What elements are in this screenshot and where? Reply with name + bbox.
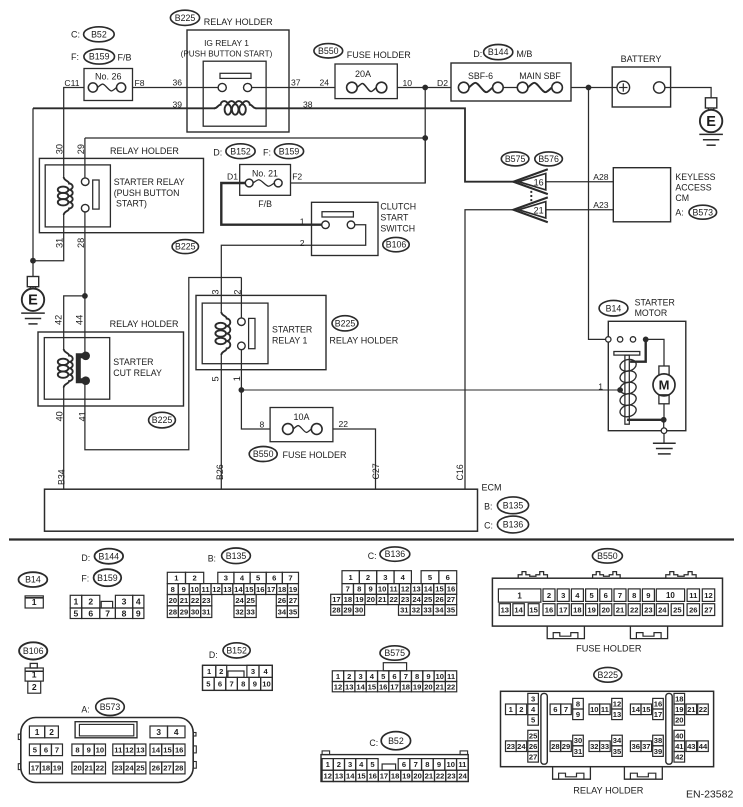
svg-text:22: 22 xyxy=(699,705,707,714)
relay holder slot left xyxy=(541,693,547,764)
svg-text:STARTER: STARTER xyxy=(635,297,675,307)
oval B106 (connector view) xyxy=(19,642,47,659)
svg-text:16: 16 xyxy=(545,605,553,614)
svg-text:25: 25 xyxy=(673,605,682,614)
wire 2 pin into relay 1 contact xyxy=(240,278,242,319)
ground E (battery) xyxy=(705,98,716,108)
starter cut relay coil xyxy=(64,349,73,388)
junction at 10/D2 xyxy=(422,85,428,91)
junction 29/F2 column xyxy=(422,135,428,141)
svg-text:B:: B: xyxy=(208,554,216,564)
svg-text:31: 31 xyxy=(400,606,409,615)
svg-text:24: 24 xyxy=(517,742,526,751)
svg-text:FUSE HOLDER: FUSE HOLDER xyxy=(283,450,348,460)
svg-text:8: 8 xyxy=(576,699,580,708)
wire 40: cut relay coil to ECM B34 xyxy=(63,399,65,489)
oval B550 (fuse holder 10A) xyxy=(249,447,277,462)
connector B52 24-pin xyxy=(321,755,468,782)
svg-text:2: 2 xyxy=(547,591,551,600)
svg-text:KEYLESS: KEYLESS xyxy=(675,172,715,182)
svg-text:12: 12 xyxy=(704,591,712,600)
svg-text:12: 12 xyxy=(323,772,331,781)
svg-text:FUSE HOLDER: FUSE HOLDER xyxy=(576,644,642,654)
fuse 10A (fuse holder B550) xyxy=(270,408,333,442)
svg-text:D:: D: xyxy=(81,553,90,563)
svg-text:(PUSH BUTTON: (PUSH BUTTON xyxy=(114,188,180,198)
svg-text:CM: CM xyxy=(675,193,689,203)
svg-text:EN-23582: EN-23582 xyxy=(686,789,733,801)
svg-text:9: 9 xyxy=(87,746,91,755)
svg-text:7: 7 xyxy=(404,672,408,681)
svg-text:20: 20 xyxy=(73,764,81,773)
wire 44 down to cut relay contact xyxy=(84,296,86,353)
svg-text:16: 16 xyxy=(654,699,662,708)
svg-text:19: 19 xyxy=(53,764,61,773)
svg-text:3: 3 xyxy=(156,727,161,737)
svg-text:6: 6 xyxy=(88,608,93,618)
svg-text:28: 28 xyxy=(175,764,183,773)
oval B225 (cut relay holder) xyxy=(149,412,176,428)
svg-text:5: 5 xyxy=(210,376,220,381)
svg-text:CLUTCH: CLUTCH xyxy=(380,201,416,211)
wire 1: relay1 contact down xyxy=(240,350,242,391)
svg-text:B106: B106 xyxy=(23,646,44,656)
svg-text:35: 35 xyxy=(289,607,298,616)
svg-text:B135: B135 xyxy=(503,500,524,510)
wire 42 branch xyxy=(64,296,85,350)
svg-text:12: 12 xyxy=(613,699,621,708)
svg-text:D2: D2 xyxy=(437,78,448,88)
connector B575 22-pin xyxy=(383,663,406,671)
svg-text:B159: B159 xyxy=(97,573,118,583)
svg-text:B225: B225 xyxy=(152,415,173,425)
svg-text:8: 8 xyxy=(171,585,175,594)
svg-text:A23: A23 xyxy=(593,200,609,210)
connector arrow 16 xyxy=(513,169,547,194)
svg-text:13: 13 xyxy=(136,746,144,755)
junction motor ground xyxy=(661,417,667,423)
wire to ground E xyxy=(32,261,34,277)
svg-text:36: 36 xyxy=(631,742,639,751)
wire solenoid bottom to motor bottom (thick) xyxy=(627,419,664,421)
wire 21: arrow to ECM C16 xyxy=(465,210,516,489)
svg-text:17: 17 xyxy=(380,772,388,781)
svg-text:14: 14 xyxy=(356,682,365,691)
svg-text:23: 23 xyxy=(202,596,210,605)
wire C11 from fuse No.26 down column 30 xyxy=(64,88,84,179)
junction at ground E column xyxy=(30,258,36,264)
svg-text:7: 7 xyxy=(229,680,233,689)
svg-text:6: 6 xyxy=(272,574,276,583)
svg-text:2: 2 xyxy=(88,597,93,607)
svg-text:3: 3 xyxy=(531,694,535,703)
svg-text:ACCESS: ACCESS xyxy=(675,183,711,193)
svg-text:C:: C: xyxy=(484,521,493,531)
svg-text:3: 3 xyxy=(211,289,221,294)
relay holder slot right xyxy=(666,693,672,764)
svg-text:14: 14 xyxy=(346,772,355,781)
svg-text:6: 6 xyxy=(553,705,557,714)
svg-text:3: 3 xyxy=(561,591,565,600)
connector arrow 21 xyxy=(513,197,547,222)
connector B152 10-pin xyxy=(203,665,273,690)
svg-text:20: 20 xyxy=(675,716,683,725)
svg-text:F8: F8 xyxy=(135,78,145,88)
svg-text:24: 24 xyxy=(658,605,667,614)
svg-text:13: 13 xyxy=(412,585,420,594)
svg-text:RELAY HOLDER: RELAY HOLDER xyxy=(110,146,179,156)
oval B225 (starter relay holder) xyxy=(172,240,198,254)
svg-text:14: 14 xyxy=(152,746,161,755)
svg-text:41: 41 xyxy=(675,742,684,751)
svg-text:3: 3 xyxy=(348,760,352,769)
svg-text:8: 8 xyxy=(632,591,636,600)
svg-text:21: 21 xyxy=(180,596,189,605)
svg-text:17: 17 xyxy=(31,764,39,773)
svg-text:B550: B550 xyxy=(597,551,618,561)
svg-text:RELAY HOLDER: RELAY HOLDER xyxy=(110,319,179,329)
svg-text:19: 19 xyxy=(413,682,421,691)
svg-text:8: 8 xyxy=(415,672,419,681)
svg-text:12: 12 xyxy=(401,585,409,594)
oval B225 (IG relay holder) xyxy=(170,10,199,25)
svg-text:21: 21 xyxy=(436,682,445,691)
svg-text:F:: F: xyxy=(71,52,79,62)
starter cut relay inner box xyxy=(44,338,109,400)
svg-text:FUSE HOLDER: FUSE HOLDER xyxy=(347,50,412,60)
wire 22: fuse 10A to ECM C27 xyxy=(333,429,376,489)
svg-text:29: 29 xyxy=(180,607,188,616)
starter relay (push button start) inner box xyxy=(45,165,110,227)
relay holder mounting tabs xyxy=(553,767,591,780)
svg-text:23: 23 xyxy=(447,772,455,781)
connector B14 xyxy=(25,596,43,608)
starter relay 1 inner box xyxy=(202,303,268,364)
svg-text:10: 10 xyxy=(590,705,598,714)
section divider xyxy=(9,538,734,540)
svg-text:10: 10 xyxy=(436,672,444,681)
svg-text:D1: D1 xyxy=(227,172,238,182)
IG relay 1 coil xyxy=(214,101,256,108)
svg-text:RELAY 1: RELAY 1 xyxy=(272,336,307,346)
svg-text:F:: F: xyxy=(263,148,271,158)
svg-text:40: 40 xyxy=(675,731,683,740)
wire 29: row to starter relay xyxy=(85,137,425,139)
svg-text:F2: F2 xyxy=(292,172,302,182)
svg-text:26: 26 xyxy=(435,595,443,604)
clutch start switch contact xyxy=(322,212,353,217)
svg-text:9: 9 xyxy=(369,585,373,594)
svg-text:15: 15 xyxy=(357,772,366,781)
svg-text:9: 9 xyxy=(182,585,186,594)
svg-text:23: 23 xyxy=(507,742,515,751)
svg-text:35: 35 xyxy=(447,606,456,615)
solenoid coil xyxy=(619,358,638,373)
oval B225 (relay holder 1) xyxy=(332,316,358,331)
svg-text:5: 5 xyxy=(74,608,79,618)
svg-text:C11: C11 xyxy=(64,78,79,88)
svg-text:39: 39 xyxy=(173,100,183,110)
keyless access CM box xyxy=(613,168,670,222)
svg-text:B576: B576 xyxy=(538,154,559,164)
svg-text:7: 7 xyxy=(618,591,622,600)
svg-text:24: 24 xyxy=(125,764,134,773)
svg-text:29: 29 xyxy=(76,144,86,154)
svg-text:C:: C: xyxy=(369,738,378,748)
svg-text:B225: B225 xyxy=(175,242,196,252)
svg-text:42: 42 xyxy=(54,315,64,325)
svg-text:37: 37 xyxy=(291,78,301,88)
svg-text:22: 22 xyxy=(389,595,397,604)
svg-text:23: 23 xyxy=(114,764,122,773)
svg-text:B575: B575 xyxy=(505,154,526,164)
svg-text:12: 12 xyxy=(212,585,220,594)
junction relay1 pin1 xyxy=(239,387,245,393)
svg-text:15: 15 xyxy=(529,605,538,614)
svg-text:14: 14 xyxy=(631,705,640,714)
wire 37: IG relay to 20A fuse xyxy=(251,87,335,89)
svg-text:21: 21 xyxy=(687,705,696,714)
svg-text:28: 28 xyxy=(169,607,177,616)
connector B573 28-pin body xyxy=(21,718,193,783)
svg-text:13: 13 xyxy=(501,605,509,614)
oval B550 (connector view) xyxy=(592,549,622,563)
relay holder box (starter cut relay) xyxy=(38,332,184,406)
svg-text:17: 17 xyxy=(559,605,567,614)
svg-text:6: 6 xyxy=(402,760,406,769)
starter motor terminals xyxy=(606,337,611,342)
svg-text:6: 6 xyxy=(44,746,48,755)
svg-text:15: 15 xyxy=(368,682,377,691)
svg-text:7: 7 xyxy=(414,760,418,769)
fuse MAIN SBF xyxy=(517,82,528,93)
svg-text:24: 24 xyxy=(458,772,467,781)
fuse holder mounting tabs xyxy=(547,626,584,639)
svg-text:27: 27 xyxy=(529,753,537,762)
svg-text:SWITCH: SWITCH xyxy=(380,223,415,233)
svg-text:12: 12 xyxy=(125,746,133,755)
svg-text:20: 20 xyxy=(413,772,421,781)
svg-text:B52: B52 xyxy=(91,29,107,39)
svg-text:17: 17 xyxy=(267,585,275,594)
svg-text:10: 10 xyxy=(403,78,413,88)
wire F2 to junction column xyxy=(291,138,426,183)
connector B135 35-pin xyxy=(167,572,185,583)
svg-text:26: 26 xyxy=(529,742,537,751)
svg-text:10: 10 xyxy=(446,760,454,769)
svg-text:35: 35 xyxy=(613,747,622,756)
svg-text:B159: B159 xyxy=(89,52,110,62)
svg-text:26: 26 xyxy=(278,596,286,605)
svg-text:B152: B152 xyxy=(230,146,251,156)
svg-text:14: 14 xyxy=(424,585,433,594)
svg-text:13: 13 xyxy=(335,772,343,781)
svg-text:RELAY HOLDER: RELAY HOLDER xyxy=(329,336,398,346)
svg-text:CUT RELAY: CUT RELAY xyxy=(113,368,162,378)
svg-text:3: 3 xyxy=(358,672,362,681)
svg-text:27: 27 xyxy=(289,596,297,605)
svg-text:20: 20 xyxy=(169,596,177,605)
svg-text:BATTERY: BATTERY xyxy=(621,54,662,64)
svg-text:RELAY HOLDER: RELAY HOLDER xyxy=(573,786,643,796)
junction 28/42/44 xyxy=(82,293,88,299)
svg-text:30: 30 xyxy=(574,736,582,745)
svg-text:3: 3 xyxy=(383,573,387,582)
oval B575 (connector view) xyxy=(380,646,409,660)
svg-text:B14: B14 xyxy=(25,575,41,585)
svg-text:1: 1 xyxy=(35,727,40,737)
svg-text:9: 9 xyxy=(437,760,441,769)
svg-text:2: 2 xyxy=(300,238,305,248)
svg-text:B26: B26 xyxy=(215,464,225,480)
svg-text:26: 26 xyxy=(152,764,160,773)
svg-text:6: 6 xyxy=(446,573,450,582)
svg-text:9: 9 xyxy=(253,680,257,689)
connector B106 2-pin xyxy=(30,663,37,668)
connector B225 relay holder body xyxy=(501,691,714,766)
svg-text:21: 21 xyxy=(616,605,625,614)
svg-text:B14: B14 xyxy=(606,303,622,313)
svg-text:STARTER RELAY: STARTER RELAY xyxy=(114,177,185,187)
svg-text:F/B: F/B xyxy=(258,199,272,209)
svg-text:22: 22 xyxy=(96,764,104,773)
wire 29 down to starter relay contact xyxy=(84,138,86,178)
svg-text:26: 26 xyxy=(689,605,697,614)
fuse No. 26 (F/B) xyxy=(84,69,133,101)
svg-text:16: 16 xyxy=(256,585,264,594)
svg-text:32: 32 xyxy=(590,742,598,751)
svg-text:22: 22 xyxy=(630,605,638,614)
svg-text:13: 13 xyxy=(223,585,231,594)
svg-text:B159: B159 xyxy=(279,146,300,156)
svg-text:B136: B136 xyxy=(385,549,406,559)
svg-text:SBF-6: SBF-6 xyxy=(468,71,493,81)
svg-text:IG RELAY 1: IG RELAY 1 xyxy=(204,38,249,48)
svg-text:2: 2 xyxy=(219,667,223,676)
wire 28: starter relay contact down xyxy=(84,212,86,296)
wire motor to ground xyxy=(663,404,665,420)
svg-text:RELAY HOLDER: RELAY HOLDER xyxy=(204,17,273,27)
svg-text:B135: B135 xyxy=(226,551,247,561)
svg-text:20: 20 xyxy=(424,682,432,691)
svg-text:6: 6 xyxy=(218,680,222,689)
svg-text:18: 18 xyxy=(675,694,683,703)
svg-text:30: 30 xyxy=(54,144,64,154)
svg-text:1: 1 xyxy=(598,381,603,391)
svg-text:22: 22 xyxy=(191,596,199,605)
svg-text:25: 25 xyxy=(246,596,255,605)
svg-text:B144: B144 xyxy=(99,551,120,561)
svg-text:28: 28 xyxy=(332,606,340,615)
oval B136 (ECM) xyxy=(497,516,528,533)
svg-text:D:: D: xyxy=(213,148,222,158)
svg-text:13: 13 xyxy=(613,710,621,719)
svg-text:34: 34 xyxy=(278,607,287,616)
junction starter motor B terminal xyxy=(643,337,649,343)
svg-text:B575: B575 xyxy=(384,648,405,658)
svg-text:MAIN SBF: MAIN SBF xyxy=(519,71,561,81)
fuse SBF-6 xyxy=(458,82,469,93)
svg-text:17: 17 xyxy=(332,595,340,604)
ECM box xyxy=(45,489,478,531)
svg-text:24: 24 xyxy=(412,595,421,604)
svg-text:19: 19 xyxy=(402,772,410,781)
starter motor ground terminal xyxy=(661,428,667,434)
svg-text:28: 28 xyxy=(551,742,559,751)
svg-text:1: 1 xyxy=(232,376,242,381)
svg-text:22: 22 xyxy=(436,772,444,781)
SBF holder box (main fuse box) xyxy=(451,63,571,101)
svg-text:10A: 10A xyxy=(293,412,309,422)
svg-text:2: 2 xyxy=(519,705,523,714)
svg-text:9: 9 xyxy=(426,672,430,681)
wire pin1 to fuse 10A xyxy=(241,390,270,429)
wire junction column: D2 down to No.21 F2 xyxy=(424,88,426,184)
svg-text:D:: D: xyxy=(209,650,218,660)
svg-text:7: 7 xyxy=(105,608,110,618)
svg-text:9: 9 xyxy=(576,710,580,719)
ground E (starter relay) xyxy=(27,277,38,287)
svg-text:6: 6 xyxy=(392,672,396,681)
svg-text:22: 22 xyxy=(447,682,455,691)
wire between SBF-6 and MAIN SBF xyxy=(503,87,517,89)
svg-text:41: 41 xyxy=(77,411,87,421)
svg-text:16: 16 xyxy=(379,682,387,691)
svg-text:E: E xyxy=(28,293,38,309)
svg-text:F:: F: xyxy=(81,574,89,584)
wire 2: clutch switch to starter relay 1 pin 3 xyxy=(221,245,311,313)
svg-text:43: 43 xyxy=(687,742,695,751)
svg-text:STARTER: STARTER xyxy=(272,325,312,335)
oval B135 (ECM) xyxy=(497,497,528,514)
junction battery feed xyxy=(586,85,592,91)
svg-text:B144: B144 xyxy=(488,47,509,57)
starter motor box xyxy=(608,321,686,430)
svg-text:23: 23 xyxy=(401,595,409,604)
svg-text:2: 2 xyxy=(337,760,341,769)
svg-text:MOTOR: MOTOR xyxy=(635,308,668,318)
svg-text:32: 32 xyxy=(235,607,243,616)
svg-text:25: 25 xyxy=(136,764,145,773)
svg-text:11: 11 xyxy=(447,672,456,681)
relay holder box (starter relay push button start) xyxy=(39,158,203,232)
svg-text:10: 10 xyxy=(96,746,104,755)
svg-text:11: 11 xyxy=(114,746,123,755)
svg-text:13: 13 xyxy=(345,682,353,691)
svg-text:42: 42 xyxy=(675,753,683,762)
wire 39 column down to ground junction xyxy=(32,108,34,260)
svg-text:11: 11 xyxy=(601,705,610,714)
svg-text:19: 19 xyxy=(675,705,683,714)
svg-text:7: 7 xyxy=(55,746,59,755)
svg-text:B573: B573 xyxy=(693,207,714,217)
svg-text:B225: B225 xyxy=(598,670,619,680)
svg-text:21: 21 xyxy=(425,772,434,781)
svg-text:31: 31 xyxy=(574,747,583,756)
svg-text:1: 1 xyxy=(300,216,305,226)
svg-text:38: 38 xyxy=(654,736,662,745)
svg-text:9: 9 xyxy=(136,608,141,618)
svg-text:18: 18 xyxy=(573,605,581,614)
svg-text:15: 15 xyxy=(163,746,172,755)
wire 39: from left column to IG relay coil xyxy=(33,107,215,109)
motor M xyxy=(659,366,669,375)
svg-text:31: 31 xyxy=(202,607,211,616)
connector B136 35-pin xyxy=(342,571,359,584)
oval B550 (fuse holder) xyxy=(314,44,343,58)
svg-text:1: 1 xyxy=(74,597,79,607)
svg-text:(PUSH BUTTON START): (PUSH BUTTON START) xyxy=(181,50,273,59)
